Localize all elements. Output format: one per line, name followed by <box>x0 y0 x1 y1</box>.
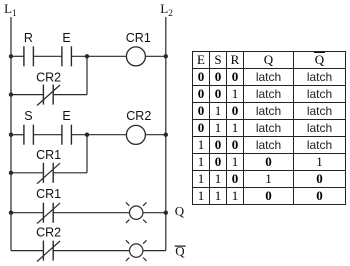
svg-text:E: E <box>62 109 70 123</box>
node rung1 right rail <box>164 54 168 58</box>
svg-text:CR2: CR2 <box>36 71 61 85</box>
wire rung1 left <box>11 55 24 57</box>
node branch1 left rail <box>9 92 13 96</box>
lamp Qbar <box>126 240 147 261</box>
svg-text:L2: L2 <box>160 1 173 19</box>
node rung4 left rail <box>9 211 13 215</box>
wire rung4 mid <box>53 212 129 214</box>
svg-text:CR2: CR2 <box>36 226 61 240</box>
contact E (NO) rung1 <box>62 46 72 66</box>
coil CR2 <box>126 125 145 144</box>
svg-text:CR1: CR1 <box>126 31 151 45</box>
label Qbar output <box>175 243 186 258</box>
svg-text:S: S <box>24 109 32 123</box>
contact CR1 (NC) branch2 <box>37 163 60 184</box>
coil CR1 <box>126 47 145 66</box>
wire branch2 vertical <box>86 135 88 173</box>
wire branch1 vertical <box>86 56 88 94</box>
svg-text:CR1: CR1 <box>36 187 61 201</box>
wire rung1 right <box>71 55 126 57</box>
contact CR2 (NC) branch1 <box>37 85 60 106</box>
contact CR1 (NC) rung4 <box>37 203 60 224</box>
truth table <box>192 51 346 205</box>
wire branch2 right <box>53 172 87 174</box>
wire branch1 right <box>53 94 87 96</box>
node rung1 left rail <box>9 54 13 58</box>
svg-text:R: R <box>24 31 33 45</box>
wire branch1 left <box>11 94 43 96</box>
left rail L1 <box>10 17 12 251</box>
contact S (NO) <box>24 125 34 145</box>
wire branch2 left <box>11 172 43 174</box>
node rung1 branch junction <box>85 54 89 58</box>
svg-text:Q: Q <box>175 204 185 219</box>
node rung4 right rail <box>164 211 168 215</box>
wire rung2 mid <box>33 134 62 136</box>
right rail L2 <box>165 17 167 251</box>
wire rung2 left <box>11 134 24 136</box>
wire rung2 to right rail <box>145 134 165 136</box>
svg-text:L1: L1 <box>4 1 17 19</box>
wire rung2 right <box>71 134 126 136</box>
svg-text:CR1: CR1 <box>36 148 61 162</box>
wire rung4 to right rail <box>143 212 166 214</box>
lamp Q <box>126 202 147 223</box>
contact E (NO) rung2 <box>62 125 72 145</box>
wire rung5 to right rail <box>143 250 166 252</box>
wire rung1 to right rail <box>145 55 165 57</box>
node rung2 right rail <box>164 133 168 137</box>
svg-text:CR2: CR2 <box>126 109 151 123</box>
node rung2 left rail <box>9 133 13 137</box>
contact CR2 (NC) rung5 <box>37 241 60 262</box>
wire rung4 left <box>11 212 43 214</box>
wire rung5 mid <box>53 250 129 252</box>
node rung2 branch junction <box>85 133 89 137</box>
node branch2 left rail <box>9 171 13 175</box>
wire rung1 mid <box>33 55 62 57</box>
svg-text:E: E <box>62 31 70 45</box>
wire rung5 left <box>11 250 43 252</box>
contact R (NO) <box>24 46 34 66</box>
